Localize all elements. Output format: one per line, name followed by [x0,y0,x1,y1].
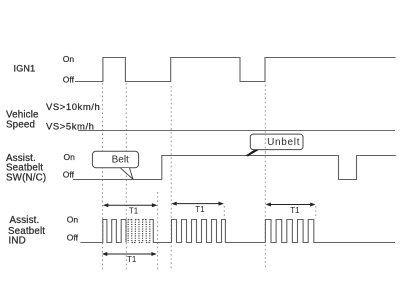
svg-text:Off: Off [67,233,79,243]
svg-text:On: On [63,54,75,64]
label On (IGN1) [63,54,75,64]
label On (IND) [67,215,79,225]
dimension arrow T1 above third IND train [266,203,316,207]
wire IND waveform third blink train [265,220,395,243]
label T1 (above third train) [290,206,300,215]
label VS>10km/h [46,102,100,113]
svg-text:T1: T1 [127,255,137,264]
svg-text:On: On [67,215,79,225]
svg-text:VS>10km/h: VS>10km/h [46,102,100,113]
label T1 (above first train) [129,206,139,215]
svg-text:Off: Off [63,170,75,180]
svg-text:Assist.: Assist. [10,215,40,226]
callout Unbelt [245,134,303,156]
dimension arrow T1 below first IND train [102,252,157,256]
dashed timeline at IGN1 third rising edge [264,85,266,270]
short dashed tick at right end of third T1 arrow [315,206,317,219]
svg-text:Unbelt: Unbelt [267,137,300,148]
wire IND waveform end of first train and gap [150,220,172,243]
label VS>5km/h [46,121,95,132]
dashed timeline at IGN1 first falling edge [125,83,127,270]
wire IND waveform first blink train (solid part) [80,220,126,243]
svg-text:T1: T1 [290,206,300,215]
svg-text:IND: IND [9,236,26,247]
dashed timeline at IGN1 first rising edge [102,83,104,270]
label Assist. Seatbelt SW(N/C) [6,153,46,183]
label Vehicle Speed [6,110,39,131]
wire IND waveform first train dotted continuation [128,219,150,242]
label On (SW) [64,152,76,162]
short dashed tick at right end of second T1 arrow [223,206,225,219]
label Assist. Seatbelt IND [8,215,45,246]
wire vehicle speed level line [78,130,395,132]
svg-text:Speed: Speed [6,119,35,130]
dimension arrow T1 above first IND train [103,203,157,207]
label Off (SW) [63,170,75,180]
wire IND waveform second blink train [172,220,266,243]
label IGN1 [14,63,36,73]
dimension arrow T1 above second IND train [171,202,224,206]
wire seatbelt switch waveform [73,156,396,180]
svg-text:On: On [64,152,76,162]
svg-text:T1: T1 [195,205,205,214]
callout Belt [92,151,138,179]
dashed timeline at IGN1 second rising edge [170,86,172,270]
dashed timeline overlay through Unbelt callout [264,134,266,152]
svg-text:Off: Off [63,75,75,85]
label Off (IGN1) [63,75,75,85]
svg-text:IGN1: IGN1 [14,63,36,73]
dashed timeline at end of first IND blink train [157,192,159,270]
label T1 (below first train) [127,255,137,264]
svg-text:SW(N/C): SW(N/C) [6,172,46,183]
svg-text:Belt: Belt [112,155,129,166]
svg-text:T1: T1 [129,206,139,215]
label Off (IND) [67,233,79,243]
wire IGN1 waveform [75,58,396,82]
label T1 (above second train) [195,205,205,214]
